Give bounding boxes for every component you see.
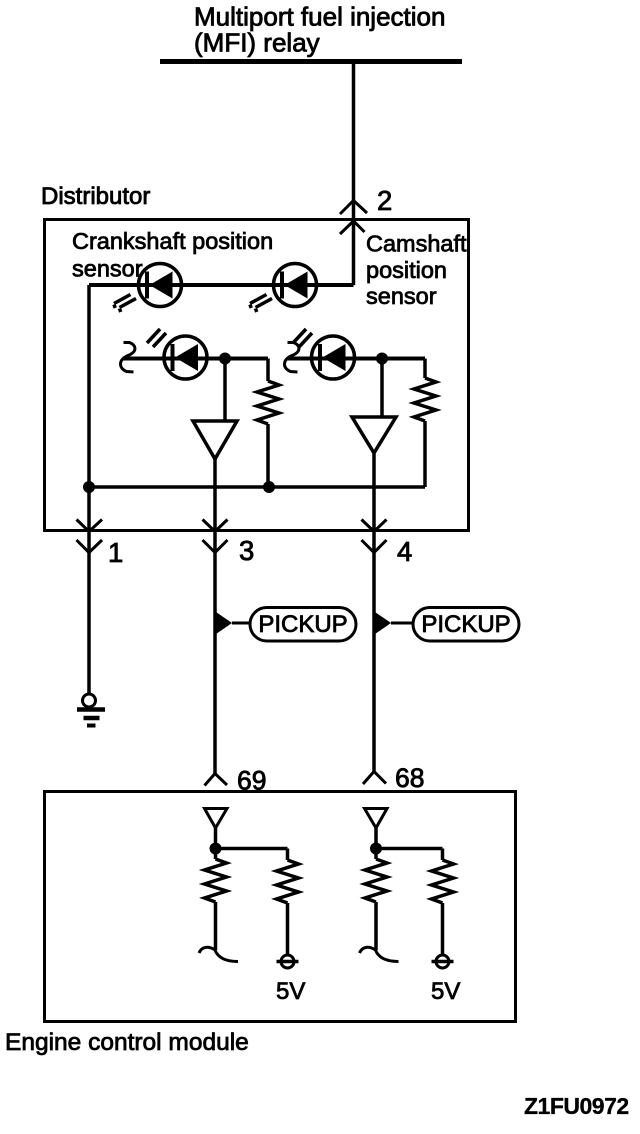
svg-text:Crankshaft position: Crankshaft position [72, 228, 273, 254]
svg-text:5V: 5V [431, 978, 460, 1005]
svg-text:2: 2 [377, 185, 392, 216]
svg-text:position: position [366, 257, 447, 283]
svg-text:sensor: sensor [72, 256, 143, 282]
svg-text:(MFI) relay: (MFI) relay [194, 28, 320, 58]
svg-text:Z1FU0972: Z1FU0972 [524, 1093, 629, 1119]
svg-text:Camshaft: Camshaft [366, 231, 467, 257]
svg-text:1: 1 [108, 537, 123, 568]
svg-text:sensor: sensor [366, 283, 437, 309]
svg-text:PICKUP: PICKUP [258, 611, 347, 638]
svg-text:PICKUP: PICKUP [421, 611, 510, 638]
svg-text:4: 4 [397, 536, 412, 567]
svg-text:5V: 5V [276, 978, 305, 1005]
svg-text:Distributor: Distributor [41, 183, 150, 210]
svg-text:Engine control module: Engine control module [5, 1029, 249, 1056]
svg-text:68: 68 [395, 763, 424, 793]
svg-text:3: 3 [239, 535, 254, 566]
